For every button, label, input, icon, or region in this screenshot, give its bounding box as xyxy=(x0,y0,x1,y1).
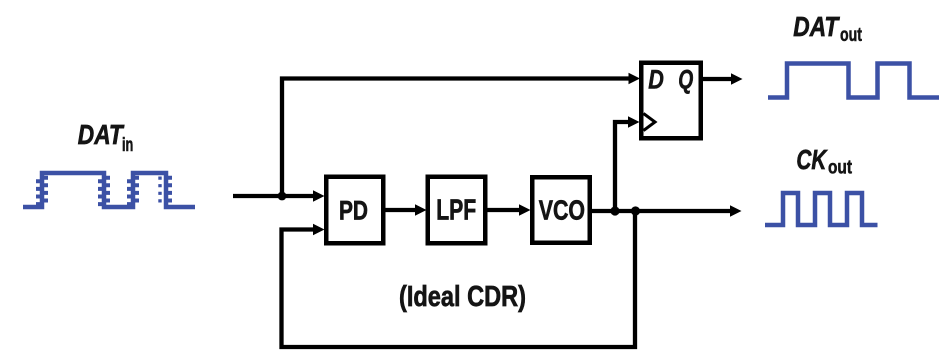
svg-text:(Ideal CDR): (Ideal CDR) xyxy=(399,281,526,313)
svg-text:DAT: DAT xyxy=(793,11,840,42)
block LPF xyxy=(428,177,486,244)
label DATin xyxy=(78,119,134,156)
arrow DATout xyxy=(731,73,743,85)
junction feedback branch xyxy=(631,206,640,215)
label CKout xyxy=(796,144,852,179)
arrow into LPF xyxy=(415,204,427,216)
jitter edge 2 teeth xyxy=(100,176,108,206)
svg-text:DAT: DAT xyxy=(78,119,125,150)
wire input DATin to PD xyxy=(233,194,314,198)
svg-text:out: out xyxy=(840,24,862,46)
wire branch up to D flip-flop input xyxy=(282,79,630,197)
arrow into D input xyxy=(629,73,641,85)
wire PD to LPF xyxy=(385,208,416,212)
label DATout xyxy=(793,11,862,46)
junction input node xyxy=(278,192,287,201)
arrow into VCO xyxy=(519,204,531,216)
junction clock branch xyxy=(610,206,619,215)
svg-text:VCO: VCO xyxy=(539,195,585,226)
svg-text:Q: Q xyxy=(678,64,693,94)
svg-text:D: D xyxy=(648,64,664,94)
svg-text:PD: PD xyxy=(339,196,368,226)
jitter edge 3 teeth xyxy=(129,176,137,206)
svg-text:LPF: LPF xyxy=(436,195,476,227)
svg-text:CK: CK xyxy=(796,144,827,175)
wire Q output xyxy=(703,77,732,81)
waveform CKout xyxy=(765,193,878,225)
arrow into PD data input xyxy=(313,190,325,202)
wire clock branch to flip-flop xyxy=(615,122,629,211)
waveform DATin xyxy=(23,173,195,207)
D flip-flop xyxy=(641,63,701,139)
block VCO xyxy=(532,177,590,243)
svg-text:out: out xyxy=(828,158,853,179)
block PD xyxy=(326,177,383,244)
wire feedback loop to PD xyxy=(282,211,636,347)
arrow into PD clock input xyxy=(313,224,325,236)
jitter edge 1 teeth xyxy=(38,176,46,206)
svg-text:in: in xyxy=(122,135,133,156)
wire VCO output to CKout arrow xyxy=(592,209,731,213)
waveform DATout xyxy=(768,64,939,98)
clock triangle xyxy=(644,114,656,131)
jitter edge 4 teeth and dotted jitter xyxy=(160,176,170,203)
arrow CKout xyxy=(730,205,742,217)
arrow into flip-flop clock xyxy=(628,116,640,128)
wire LPF to VCO xyxy=(487,208,520,212)
